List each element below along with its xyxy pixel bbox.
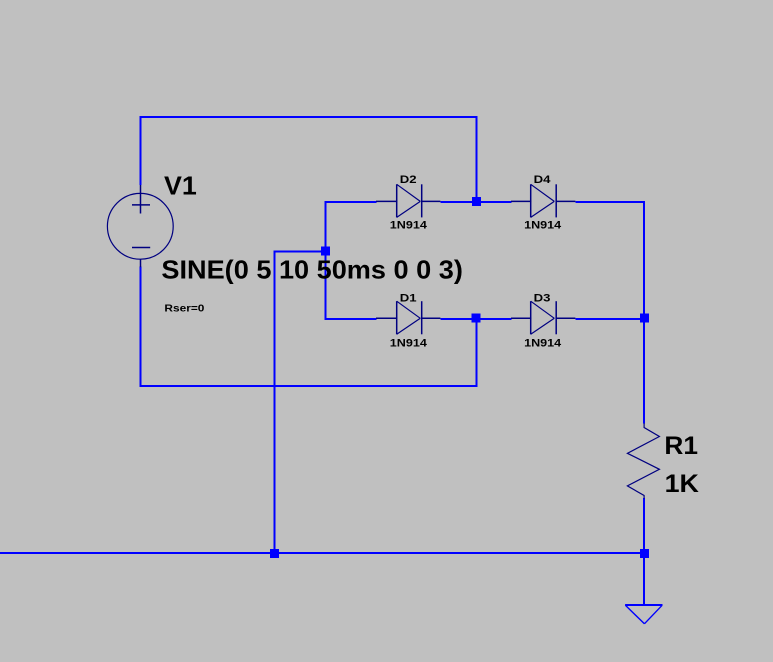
ground [625, 605, 662, 624]
resistor R1 [627, 423, 659, 498]
node junction R1 bottom / ground rail [640, 549, 649, 558]
wire top rail from V1 top to bridge input corner [140, 116, 478, 118]
svg-text:1K: 1K [665, 470, 699, 498]
diode D4 [511, 184, 575, 217]
wire ground junction to ground symbol [643, 552, 645, 604]
wire V1 bottom vertical [140, 267, 142, 387]
wire D4 cathode to top-right corner [575, 201, 645, 203]
node junction output-neg column / ground rail [270, 549, 279, 558]
wire D3 cathode to right column junction [575, 318, 645, 320]
wire bottom ground rail [0, 552, 645, 554]
wire D2 cathode to junction [440, 201, 477, 203]
svg-text:1N914: 1N914 [390, 219, 428, 231]
wire D1 cathode to junction [440, 318, 477, 320]
wire top-right vertical down to D2/D4 junction [476, 116, 478, 203]
wire R1 bottom to ground junction [643, 498, 645, 554]
wire vertical x=476 from D1/D3 junction down to negative rail [476, 318, 478, 387]
wire junction to D4 anode [476, 201, 512, 203]
svg-text:V1: V1 [164, 171, 197, 201]
wire D1 anode horizontal [325, 318, 377, 320]
diode D3 [511, 301, 575, 334]
svg-text:SINE(0 5 10 50ms 0 0 3): SINE(0 5 10 50ms 0 0 3) [161, 254, 463, 284]
wire V1 negative rail horizontal y=384 [140, 385, 478, 387]
node junction D3 cathode / right column [640, 314, 649, 323]
svg-text:D2: D2 [400, 174, 417, 186]
node junction D2 cathode / D4 anode [472, 197, 481, 206]
node junction anode column to SINE link [321, 247, 330, 256]
wire horizontal link from anode column to output-neg column [274, 250, 327, 252]
voltage source V1 [107, 185, 173, 267]
svg-text:Rser=0: Rser=0 [164, 302, 204, 314]
node junction D1 cathode / D3 anode [471, 314, 480, 323]
svg-text:D3: D3 [534, 292, 551, 304]
svg-text:1N914: 1N914 [524, 219, 562, 231]
svg-text:D1: D1 [400, 292, 417, 304]
wire anode column connecting D2 and D1 anodes [325, 201, 327, 320]
diode D2 [376, 184, 440, 217]
svg-text:1N914: 1N914 [524, 337, 562, 349]
wire D2 anode horizontal [325, 201, 377, 203]
wire right column from D4 corner down to R1 top [643, 201, 645, 424]
svg-text:R1: R1 [664, 432, 698, 460]
wire output-neg column down to ground rail [274, 250, 276, 554]
wire junction to D3 anode [476, 318, 512, 320]
wire V1 top lead vertical [140, 116, 142, 185]
svg-text:D4: D4 [534, 174, 552, 186]
diode D1 [376, 301, 440, 334]
svg-text:1N914: 1N914 [390, 337, 428, 349]
